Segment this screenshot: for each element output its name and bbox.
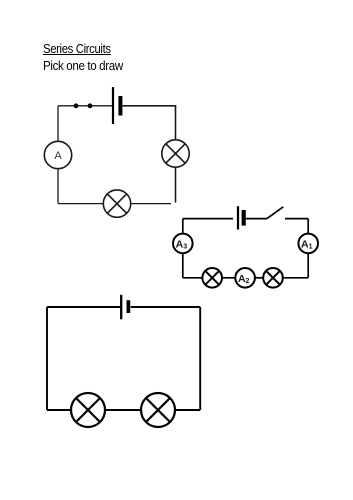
ammeter A1 <box>298 234 318 254</box>
battery B3 short thick plate <box>127 300 131 313</box>
junction dot 2 <box>88 103 93 108</box>
wire top-left segment (c2) <box>183 218 233 220</box>
wire left lower vertical (c2) <box>182 253 184 278</box>
wire bottom-left segment (c3) <box>47 409 71 411</box>
wire to switch <box>246 218 267 220</box>
wire top-right segment (c3) <box>131 306 200 308</box>
svg-text:A2: A2 <box>238 273 250 285</box>
wire bottom segment right (c2) <box>283 277 308 279</box>
title <box>43 41 111 56</box>
wire left vertical segment <box>57 106 59 142</box>
wire top-right segment <box>122 106 175 140</box>
wire bottom-right segment (c3) <box>175 409 200 411</box>
lamp L6 (c3 right) <box>141 393 175 427</box>
wire between lamp and A2 <box>255 277 263 279</box>
wire bottom segment left (c2) <box>183 277 203 279</box>
wire between A2 and lamp <box>222 277 235 279</box>
lamp L4 (c2 bottom right) <box>263 268 283 288</box>
wire left upper vertical (c2) <box>182 219 184 234</box>
lamp L3 (c2 bottom left) <box>202 268 222 288</box>
battery B1 long plate <box>112 87 114 124</box>
wire right lower vertical (c2) <box>307 253 309 278</box>
wire right vertical (c3) <box>199 307 201 410</box>
ammeter A2 <box>235 268 255 288</box>
svg-text:A1: A1 <box>301 238 313 250</box>
wire after switch <box>285 218 308 220</box>
ammeter A (circuit 1) <box>44 141 71 168</box>
wire top-left segment <box>58 105 113 107</box>
battery B3 long plate <box>120 295 122 320</box>
svg-text:A: A <box>54 150 62 162</box>
wire bottom-middle segment (c3) <box>105 409 141 411</box>
lamp L1 (right) <box>162 140 189 167</box>
wire bottom-left segment <box>58 203 103 205</box>
svg-text:A3: A3 <box>176 238 188 250</box>
subtitle <box>43 58 123 73</box>
battery B2 long plate <box>237 206 239 229</box>
wire right upper vertical (c2) <box>307 219 309 234</box>
wire left vertical (c3) <box>46 307 48 410</box>
ammeter A3 <box>173 234 193 254</box>
wire right-lower segment <box>175 167 177 202</box>
lamp L2 (bottom) <box>103 190 130 217</box>
wire bottom-right segment (open end) <box>131 203 171 205</box>
wire top-left segment (c3) <box>47 306 120 308</box>
battery B2 short thick plate <box>242 210 246 226</box>
lamp L5 (c3 left) <box>71 393 105 427</box>
junction dot 1 <box>74 103 79 108</box>
switch S1 lever (open) <box>267 207 283 219</box>
battery B1 short thick plate <box>118 96 122 116</box>
wire left-lower segment <box>57 169 59 204</box>
